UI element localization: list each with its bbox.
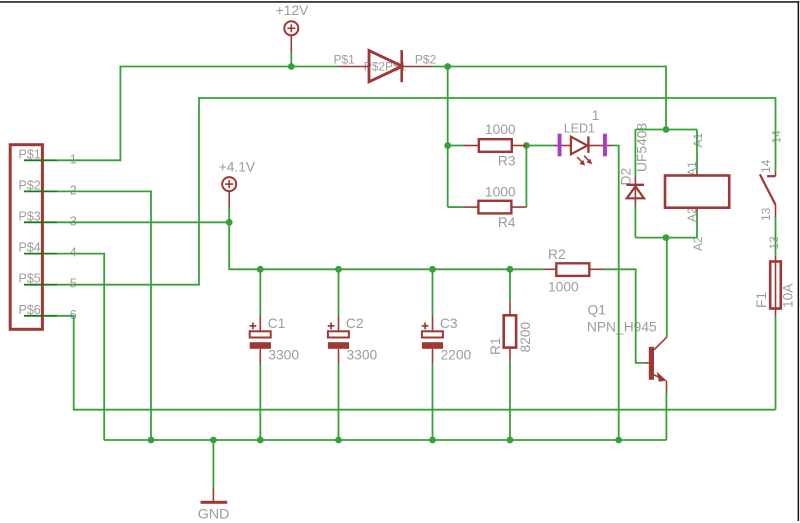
svg-text:4: 4 (70, 246, 77, 260)
svg-text:13: 13 (759, 207, 773, 221)
wire +12V stub (290, 52, 292, 67)
svg-text:2: 2 (70, 183, 77, 197)
svg-text:NPN_H945: NPN_H945 (587, 319, 657, 334)
LED1 emission arrows (577, 157, 582, 162)
wire R1 top drop (509, 269, 511, 301)
node C2 top junction (335, 266, 342, 273)
wire D1 cathode to corner down to relay node (433, 67, 667, 130)
wire relay A2 node horizontal (635, 237, 697, 239)
svg-text:A1: A1 (691, 132, 705, 147)
wire pin5 up to net B across to switch 14 (57, 98, 776, 285)
svg-text:+12V: +12V (276, 3, 309, 18)
wire F1 bottom down to rail1 (775, 317, 777, 410)
wire to R3 left (448, 145, 464, 147)
wire C2 bottom drop (338, 363, 340, 440)
resistor R3 (464, 145, 479, 147)
wire C2 top drop (338, 269, 340, 315)
svg-text:C1: C1 (268, 316, 286, 331)
svg-text:R3: R3 (498, 153, 516, 168)
fuse F1 (775, 256, 777, 309)
svg-text:C2: C2 (346, 316, 364, 331)
wire gnd stem (212, 440, 214, 488)
wire pin4 down to gnd rail (57, 254, 104, 440)
svg-text:2200: 2200 (441, 347, 472, 362)
node C3 bottom junction (429, 437, 436, 444)
svg-text:Q1: Q1 (588, 303, 606, 318)
node C2 bottom junction (335, 437, 342, 444)
wire R3 right to R4 right vertical (525, 146, 527, 208)
wire gnd rail (104, 439, 666, 441)
wire switch 13 to F1 top (775, 217, 777, 256)
wire down to D2 cathode (634, 130, 636, 177)
node R1 bottom junction (507, 437, 514, 444)
svg-text:3300: 3300 (268, 347, 299, 362)
capacitor C3 (432, 315, 434, 331)
svg-text:14: 14 (759, 159, 773, 173)
svg-text:P$3: P$3 (19, 210, 41, 224)
node C1 bottom junction (257, 437, 264, 444)
wire pin6 down along rail1 to fuse column (57, 316, 776, 410)
svg-text:1000: 1000 (485, 184, 516, 199)
svg-text:P$4: P$4 (19, 241, 41, 255)
node C3 top junction (429, 266, 436, 273)
wire to R4 left (448, 206, 464, 208)
svg-text:3300: 3300 (347, 347, 378, 362)
wire C3 bottom drop (432, 363, 434, 440)
wire C1 bottom drop (259, 363, 261, 440)
node gnd stem junction (210, 437, 217, 444)
wire +4.1V node down and supply rail to R2 left (229, 222, 544, 269)
wire Q1 emitter down to gnd rail (665, 394, 667, 441)
svg-text:5: 5 (70, 277, 77, 291)
wire node D1C down to R3/R4 left (447, 67, 449, 208)
svg-text:1000: 1000 (548, 280, 579, 295)
node D1 cathode junction (444, 63, 451, 70)
svg-text:LED1: LED1 (564, 121, 595, 135)
diode D2 (626, 184, 644, 186)
svg-text:14: 14 (770, 130, 784, 144)
node R3 left junction (444, 142, 451, 149)
wire down to relay A1 (696, 130, 698, 172)
svg-text:R1: R1 (488, 337, 503, 355)
wire relay node horizontal (635, 129, 697, 131)
wire pin2 down to gnd rail (57, 191, 151, 440)
node pin2 gnd junction (148, 437, 155, 444)
wire D2 anode down (634, 206, 636, 238)
svg-text:GND: GND (198, 507, 230, 523)
node C1 top junction (257, 266, 264, 273)
svg-text:R4: R4 (498, 215, 516, 230)
svg-text:1000: 1000 (485, 122, 516, 137)
svg-text:+4.1V: +4.1V (219, 160, 256, 175)
svg-text:P$5: P$5 (19, 272, 41, 286)
wire Q1 collector up to relay A2 node (666, 238, 668, 337)
connector pin P$2 (24, 190, 57, 192)
node +12V junction (288, 63, 295, 70)
node relay A2 junction (663, 234, 670, 241)
svg-text:10A: 10A (781, 283, 796, 308)
wire R1 bottom drop (509, 362, 511, 441)
svg-text:P$6: P$6 (19, 303, 41, 317)
svg-text:D2: D2 (619, 168, 634, 186)
svg-text:13: 13 (767, 236, 781, 250)
resistor R2 (544, 268, 557, 270)
supply +12V symbol (284, 21, 298, 35)
border right (798, 1, 800, 521)
wire relay A2 down (696, 212, 698, 238)
diode D1 (339, 66, 370, 68)
wire C1 top drop (259, 269, 261, 315)
wire +4.1V stub green (228, 208, 230, 223)
connector J1 body (10, 145, 42, 330)
connector pin P$4 (24, 253, 57, 255)
svg-text:P$2: P$2 (19, 178, 41, 192)
relay K1 coil (665, 176, 729, 208)
LED LED1 (554, 145, 558, 147)
wire R3 right to LED left (526, 145, 553, 147)
wire R2 right to Q1 base (603, 269, 646, 363)
connector pin P$6 (24, 315, 57, 317)
svg-text:P$1: P$1 (334, 53, 356, 67)
node R1 top junction (507, 266, 514, 273)
svg-text:P$2: P$2 (415, 53, 437, 67)
capacitor C1 (259, 315, 261, 331)
wire pin3 to +4.1V node (57, 221, 229, 223)
border top (0, 1, 799, 3)
svg-text:R2: R2 (548, 247, 566, 262)
transistor Q1 (646, 362, 649, 364)
resistor R4 (464, 206, 479, 208)
relay contact switch 14-13 (775, 171, 777, 176)
resistor R1 (509, 301, 511, 315)
connector pin P$5 (24, 284, 57, 286)
svg-text:P$1: P$1 (19, 147, 41, 161)
connector pin P$3 (24, 221, 57, 223)
node LED bottom junction (615, 437, 622, 444)
capacitor C2 (338, 315, 340, 331)
node +4.1V junction (226, 219, 233, 226)
node relay A1 junction (663, 126, 670, 133)
wire pin1 to top rail to D1 anode (57, 67, 339, 161)
ground (212, 488, 214, 501)
svg-text:1: 1 (70, 152, 77, 166)
svg-text:8200: 8200 (518, 321, 533, 352)
svg-text:C3: C3 (440, 316, 458, 331)
svg-text:F1: F1 (754, 292, 769, 308)
wire LED right elbow down to gnd rail (612, 146, 619, 441)
connector pin P$1 (24, 159, 57, 161)
supply +4.1V symbol (222, 177, 236, 191)
node R3 right junction (523, 142, 530, 149)
wire C3 top drop (432, 269, 434, 315)
